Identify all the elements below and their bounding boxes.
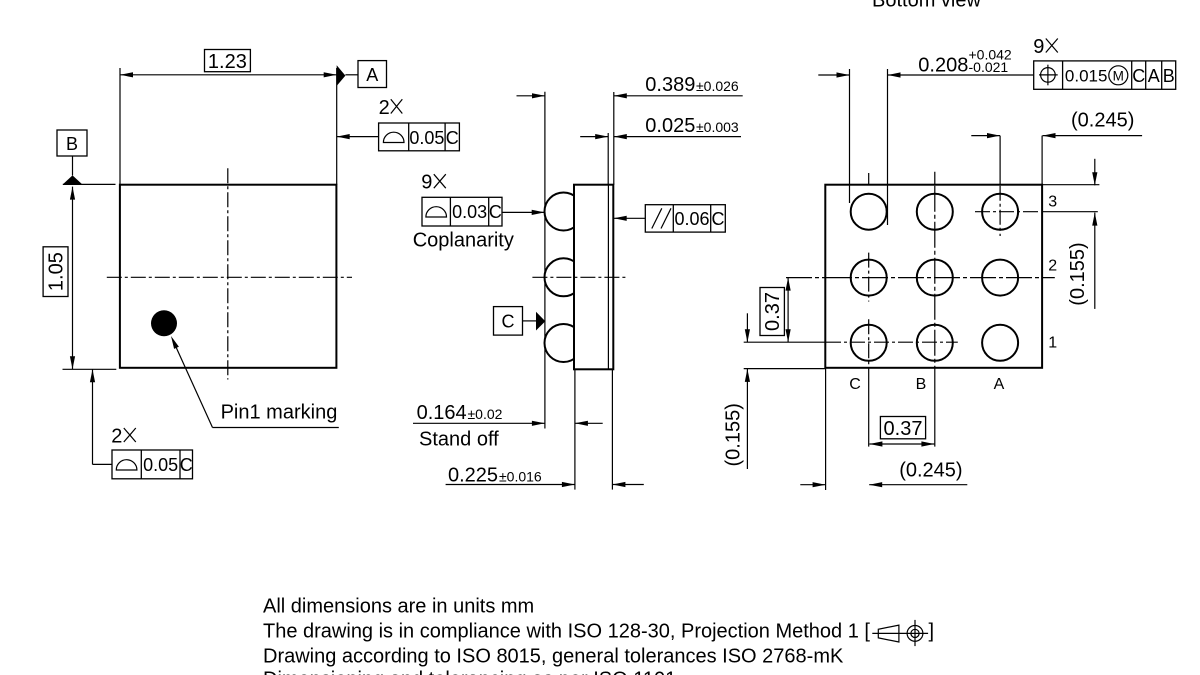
svg-text:Drawing according to ISO 8015,: Drawing according to ISO 8015, general t… (263, 646, 844, 668)
svg-text:C: C (1132, 66, 1145, 86)
svg-text:Stand off: Stand off (419, 429, 499, 451)
svg-text:]: ] (929, 621, 935, 643)
svg-text:(0.245): (0.245) (899, 460, 962, 482)
svg-text:Dimensioning and tolerancing a: Dimensioning and tolerancing as per ISO … (263, 669, 676, 675)
svg-text:0.208: 0.208 (918, 55, 968, 77)
svg-text:B: B (66, 134, 78, 154)
svg-text:2: 2 (111, 426, 122, 448)
svg-text:2: 2 (1048, 257, 1057, 274)
svg-text:0.06: 0.06 (674, 209, 709, 229)
svg-text:Coplanarity: Coplanarity (413, 230, 514, 252)
svg-text:0.37: 0.37 (884, 418, 923, 440)
svg-text:Pin1 marking: Pin1 marking (221, 402, 338, 424)
svg-text:A: A (366, 65, 378, 85)
svg-text:0.015: 0.015 (1065, 67, 1108, 86)
svg-text:±0.026: ±0.026 (696, 78, 739, 94)
svg-text:±0.003: ±0.003 (696, 119, 739, 135)
svg-text:-0.021: -0.021 (969, 59, 1009, 75)
svg-text:1.23: 1.23 (208, 51, 247, 73)
svg-text:Bottom view: Bottom view (872, 0, 981, 12)
svg-text:1: 1 (1048, 334, 1057, 351)
svg-text:C: C (502, 312, 515, 332)
svg-text:C: C (849, 376, 861, 393)
svg-text:C: C (712, 209, 725, 229)
svg-text:(0.155): (0.155) (722, 403, 744, 466)
svg-text:(0.245): (0.245) (1071, 109, 1134, 131)
svg-text:1.05: 1.05 (46, 252, 68, 291)
svg-text:(0.155): (0.155) (1067, 242, 1089, 305)
svg-text:±0.02: ±0.02 (468, 406, 503, 422)
svg-text:The drawing is in compliance w: The drawing is in compliance with ISO 12… (263, 621, 870, 643)
svg-text:C: C (446, 128, 459, 148)
svg-text:9: 9 (1033, 36, 1044, 58)
svg-text:0.025: 0.025 (645, 115, 695, 137)
svg-text:B: B (1163, 66, 1175, 86)
svg-text:C: C (180, 455, 193, 475)
svg-text:0.03: 0.03 (452, 202, 487, 222)
svg-text:A: A (994, 376, 1005, 393)
svg-text:B: B (916, 376, 927, 393)
svg-text:All dimensions are in units mm: All dimensions are in units mm (263, 596, 534, 618)
svg-text:M: M (1113, 68, 1124, 83)
svg-text:0.389: 0.389 (645, 74, 695, 96)
svg-text:0.05: 0.05 (143, 455, 178, 475)
svg-text:0.05: 0.05 (409, 128, 444, 148)
svg-text:C: C (489, 202, 502, 222)
svg-text:A: A (1148, 66, 1160, 86)
svg-text:9: 9 (421, 172, 432, 194)
svg-text:3: 3 (1048, 194, 1057, 211)
svg-text:0.37: 0.37 (762, 292, 784, 331)
svg-text:2: 2 (379, 97, 390, 119)
svg-text:±0.016: ±0.016 (499, 468, 542, 484)
svg-text:0.164: 0.164 (417, 402, 467, 424)
svg-text:0.225: 0.225 (448, 464, 498, 486)
